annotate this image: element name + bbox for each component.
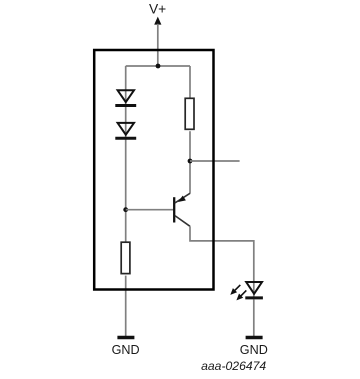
wire base [126, 209, 174, 211]
V+ terminal arrow [154, 17, 161, 66]
ground left [112, 338, 140, 358]
wire left branch (rail to base node to resistor) [125, 66, 127, 242]
resistor R2 (bottom left) [121, 242, 130, 273]
node base junction [123, 207, 128, 212]
wire top supply rail [126, 65, 190, 67]
svg-text:GND: GND [112, 343, 140, 357]
svg-text:V+: V+ [149, 1, 166, 16]
diode D1 [115, 90, 136, 105]
device outline box [94, 50, 213, 290]
svg-text:aaa-026474: aaa-026474 [201, 359, 266, 373]
wire resistor bottom to emitter [189, 131, 191, 193]
wire LED to ground [253, 300, 255, 337]
wire resistor to ground [125, 276, 127, 337]
transistor Q1 (PNP) [174, 193, 190, 226]
wire collector to LED [190, 226, 254, 298]
wire output stub [190, 160, 240, 162]
resistor R1 (top right) [185, 98, 194, 129]
wire rail to resistor top [189, 66, 191, 98]
svg-text:GND: GND [240, 343, 268, 357]
LED D3 [230, 282, 263, 300]
node supply junction [156, 64, 161, 69]
figure label aaa-026474 [201, 359, 266, 373]
diode D2 [115, 123, 136, 138]
net label V+ [149, 1, 166, 16]
ground right [240, 338, 268, 358]
node output junction [188, 159, 193, 164]
